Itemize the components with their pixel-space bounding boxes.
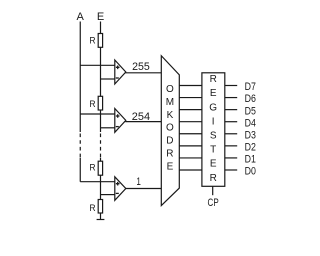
svg-text:O: O — [166, 123, 174, 134]
register block — [202, 73, 225, 187]
wire comparator2 - input — [101, 127, 115, 129]
op-amp comparator U3 — [115, 177, 126, 201]
svg-text:K: K — [167, 110, 174, 121]
wire encoder to register bit6 — [179, 97, 202, 99]
wire output D3 — [225, 133, 237, 135]
wire encoder to register bit5 — [179, 109, 202, 111]
wire E vertical dashed — [100, 134, 102, 158]
svg-text:R: R — [166, 149, 173, 160]
op-amp comparator U2 — [115, 109, 126, 133]
wire output D4 — [225, 121, 237, 123]
svg-text:R: R — [89, 35, 96, 45]
pin label D3 — [245, 129, 256, 141]
wire output D6 — [225, 97, 237, 99]
node E label — [97, 11, 104, 23]
op-amp U3 plus sign — [116, 182, 120, 186]
resistor R4 — [98, 200, 102, 214]
wire comparator3 + input — [80, 181, 115, 183]
svg-text:T: T — [210, 145, 216, 156]
wire output D5 — [225, 109, 237, 111]
svg-text:I: I — [212, 116, 215, 127]
pin label D2 — [245, 142, 256, 154]
svg-text:R: R — [89, 203, 96, 213]
svg-text:R: R — [89, 163, 96, 173]
wire encoder to register bit3 — [179, 133, 202, 135]
wire U2 output — [125, 121, 161, 123]
ground — [97, 219, 105, 221]
svg-text:D: D — [166, 136, 173, 147]
op-amp U3 minus sign — [116, 192, 119, 194]
svg-text:E: E — [97, 11, 104, 23]
encoder block OMKODRE — [161, 56, 179, 206]
wire comparator1 - input — [101, 78, 115, 80]
resistor R1 label — [89, 35, 96, 45]
pin label D5 — [245, 105, 256, 117]
wire comparator2 + input — [80, 113, 115, 115]
svg-text:A: A — [77, 11, 85, 23]
op-amp U2 plus sign — [116, 114, 120, 118]
svg-text:S: S — [210, 131, 217, 142]
svg-text:D6: D6 — [245, 93, 256, 105]
wire U3 output — [125, 188, 161, 190]
svg-text:E: E — [210, 159, 217, 170]
svg-text:D2: D2 — [245, 142, 256, 154]
wire U1 output — [125, 72, 161, 74]
svg-text:254: 254 — [132, 111, 150, 123]
resistor R2 — [98, 96, 102, 110]
svg-text:R: R — [210, 74, 217, 85]
svg-text:D5: D5 — [245, 105, 256, 117]
svg-text:CP: CP — [208, 197, 219, 209]
pin label CP — [208, 197, 219, 209]
wire comparator3 - input — [101, 194, 115, 196]
wire encoder to register bit7 — [179, 85, 202, 87]
node A label — [77, 11, 85, 23]
svg-text:D4: D4 — [245, 117, 256, 129]
pin label D1 — [245, 154, 256, 166]
svg-text:R: R — [89, 99, 96, 109]
resistor R3 label — [89, 163, 96, 173]
op-amp U2 minus sign — [116, 126, 119, 128]
pin label D0 — [245, 166, 256, 178]
node 255 label — [132, 61, 150, 73]
svg-text:1: 1 — [136, 176, 141, 188]
wire comparator1 + input — [80, 64, 115, 66]
svg-text:D3: D3 — [245, 129, 256, 141]
svg-text:R: R — [210, 173, 217, 184]
svg-text:E: E — [210, 88, 217, 99]
pin label D4 — [245, 117, 256, 129]
svg-text:G: G — [209, 102, 217, 113]
svg-text:255: 255 — [132, 61, 150, 73]
wire output D1 — [225, 157, 237, 159]
encoder letters OMKODRE — [166, 84, 174, 173]
wire CP clock input — [212, 186, 214, 195]
resistor R3 — [98, 161, 102, 175]
wire A vertical dashed — [79, 134, 81, 158]
op-amp comparator U1 — [115, 60, 126, 84]
svg-text:D0: D0 — [245, 166, 256, 178]
pin label D7 — [245, 81, 256, 93]
wire E vertical solid bottom — [100, 158, 102, 220]
svg-text:O: O — [166, 84, 174, 95]
op-amp U1 minus sign — [116, 77, 119, 79]
wire encoder to register bit4 — [179, 121, 202, 123]
wire output D7 — [225, 85, 237, 87]
pin label D6 — [245, 93, 256, 105]
wire encoder to register bit1 — [179, 157, 202, 159]
wire A vertical solid bottom — [79, 158, 81, 182]
svg-text:M: M — [166, 97, 174, 108]
wire A vertical solid top — [79, 22, 81, 133]
node 254 label — [132, 111, 150, 123]
register letters REGISTER — [209, 74, 217, 184]
svg-text:D7: D7 — [245, 81, 256, 93]
wire output D2 — [225, 145, 237, 147]
op-amp U1 plus sign — [116, 66, 120, 70]
wire E vertical solid top — [100, 22, 102, 133]
node 1 label — [136, 176, 141, 188]
wire output D0 — [225, 169, 237, 171]
resistor R2 label — [89, 99, 96, 109]
resistor R4 label — [89, 203, 96, 213]
svg-text:E: E — [167, 161, 174, 172]
wire encoder to register bit2 — [179, 145, 202, 147]
svg-text:D1: D1 — [245, 154, 256, 166]
wire encoder to register bit0 — [179, 169, 202, 171]
resistor R1 — [98, 34, 102, 48]
